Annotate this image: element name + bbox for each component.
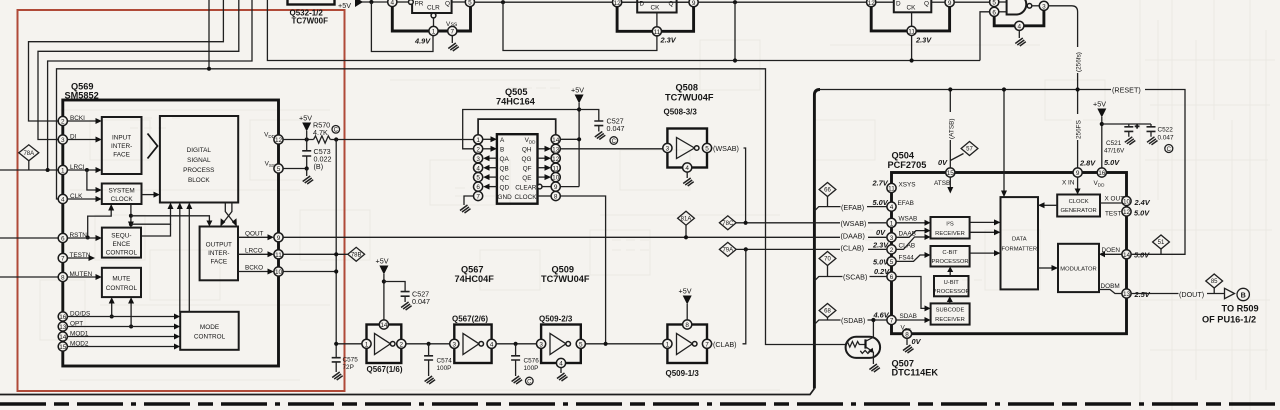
svg-text:SDAB: SDAB — [900, 313, 917, 320]
svg-text:MODE: MODE — [200, 324, 219, 331]
svg-text:12: 12 — [275, 137, 283, 144]
wire modulator to DOEN pin 14 — [1105, 253, 1122, 255]
wire LRCI from left edge to SM5852 pin 1 — [0, 169, 58, 171]
pin 9 of U3 — [945, 0, 954, 7]
wire U2 spine — [617, 7, 694, 32]
ground at C522 — [1147, 137, 1158, 145]
wire U2 box to pin9 — [677, 1, 689, 3]
pin 3 of U10 — [537, 339, 546, 348]
junction internal b — [129, 222, 133, 226]
svg-text:1: 1 — [666, 341, 670, 348]
svg-text:SIGNAL: SIGNAL — [187, 157, 211, 164]
svg-text:CONTROL: CONTROL — [106, 250, 138, 257]
svg-text:Q: Q — [669, 1, 674, 8]
junction CLK line — [207, 67, 211, 71]
pin 11 XSYS — [887, 183, 896, 192]
block DATA FORMATTER — [1001, 197, 1039, 289]
svg-text:1: 1 — [890, 220, 894, 227]
junction on OPT line — [129, 325, 133, 329]
inverter U10 Q509-2/3 box — [541, 325, 581, 364]
wire 256fs from NAND output down to X IN — [1049, 6, 1078, 168]
block INPUT INTERFACE — [102, 117, 142, 174]
sheet border dash-dot line — [0, 402, 1280, 406]
svg-text:(256fs): (256fs) — [1076, 52, 1083, 72]
wire modulator to DOBM pin 13 — [1099, 290, 1122, 294]
wire WSAB into I2S receiver — [896, 222, 925, 224]
svg-text:2: 2 — [400, 341, 404, 348]
svg-text:70: 70 — [824, 257, 831, 263]
svg-text:4: 4 — [559, 361, 563, 368]
capacitor C575 72P — [332, 358, 341, 372]
svg-text:2.3V: 2.3V — [915, 36, 932, 45]
flip-flop U3 box — [894, 0, 932, 12]
pin 4 CLK — [58, 194, 67, 203]
svg-text:13: 13 — [59, 324, 67, 331]
svg-text:PR: PR — [415, 1, 424, 8]
pin 6 RSTN — [58, 233, 67, 242]
pin 2 of U6 — [474, 144, 483, 153]
svg-text:Q509-1/3: Q509-1/3 — [666, 369, 700, 378]
svg-text:5: 5 — [476, 175, 480, 182]
wire U4 pin6 from 256fs-A riser — [980, 12, 990, 61]
svg-text:78C: 78C — [722, 221, 734, 227]
wire data formatter to modulator — [1038, 267, 1052, 269]
wire U4 pin5 stub — [999, 1, 1007, 3]
svg-text:INTER-: INTER- — [208, 250, 229, 257]
svg-text:8: 8 — [905, 331, 909, 338]
svg-text:8: 8 — [554, 194, 558, 201]
svg-text:U-BIT: U-BIT — [944, 280, 960, 286]
junction RESET drop — [1002, 87, 1006, 91]
wire +5V feed to FF1 pin 4 — [362, 1, 388, 3]
pin 11 of U6 — [551, 163, 560, 172]
svg-text:QC: QC — [500, 175, 510, 182]
wire DOUT output line — [1131, 293, 1224, 295]
svg-text:5: 5 — [890, 259, 894, 266]
svg-text:PROCESSOR: PROCESSOR — [933, 289, 970, 295]
pin 12 of U6 — [551, 154, 560, 163]
svg-text:SEQU-: SEQU- — [111, 233, 131, 240]
svg-text:DIGITAL: DIGITAL — [187, 147, 212, 154]
svg-text:5.0V: 5.0V — [1104, 158, 1120, 167]
svg-text:CLR: CLR — [427, 5, 440, 12]
label (EFAB) — [841, 202, 868, 211]
wire Q507 collector to SDAB line — [872, 320, 874, 337]
svg-text:GENERATOR: GENERATOR — [1061, 208, 1097, 214]
ground at C575 — [332, 372, 343, 380]
wire EFAB bend from bus — [814, 207, 887, 211]
svg-text:CLOCK: CLOCK — [1069, 199, 1089, 205]
label (DOUT) — [1179, 289, 1208, 299]
wire FS44 into C-BIT processor — [896, 255, 925, 261]
svg-text:D: D — [896, 1, 901, 8]
svg-text:2.3V: 2.3V — [660, 36, 677, 45]
test point C circle at C576 — [526, 377, 534, 385]
svg-text:+: + — [1135, 122, 1139, 131]
+5V supply at U8 — [376, 257, 389, 320]
connector diamond 85 — [1206, 274, 1223, 294]
pin 15 MOD2 — [58, 342, 67, 351]
svg-text:WSAB: WSAB — [899, 216, 918, 223]
wire QH pin13 to Q508-3/3 input — [560, 148, 663, 150]
pin 9 of U2 — [689, 0, 698, 7]
inverter U8 Q567(1/6) box — [367, 325, 402, 364]
svg-text:4: 4 — [476, 165, 480, 172]
junction on DO/DS line — [110, 315, 114, 319]
wire CLAB line to PCF2705 pin 2 — [736, 248, 886, 250]
+5V supply at R570 — [299, 114, 312, 140]
wire U6 pin1 stub with arrow — [483, 138, 491, 140]
svg-text:(EFAB): (EFAB) — [841, 203, 864, 212]
svg-text:6: 6 — [61, 236, 65, 243]
pin 2 of U8 — [397, 339, 406, 348]
junction clock loop on chain — [604, 342, 608, 346]
pin 1 of U11 — [663, 339, 672, 348]
label (SCAB) — [843, 272, 870, 281]
wire MUTEN into mute control — [67, 276, 96, 278]
wire ATSB from RESET line — [949, 90, 951, 168]
capacitor C576 100P — [511, 344, 520, 376]
svg-text:4.9V: 4.9V — [414, 37, 431, 46]
pin 14 DOEN — [1122, 250, 1131, 259]
svg-text:C: C — [527, 379, 532, 385]
svg-text:11: 11 — [888, 186, 895, 193]
wire system clock feedback from RSTN line — [88, 210, 112, 238]
svg-text:14: 14 — [380, 322, 388, 329]
svg-text:11: 11 — [275, 252, 282, 259]
wire U-BIT to C-BIT — [949, 272, 951, 277]
svg-text:+5V: +5V — [679, 287, 692, 296]
wire BCKI into block — [67, 120, 96, 122]
wire SDAB into subcode receiver — [896, 319, 925, 321]
pin 14 MOD1 — [58, 332, 67, 341]
sheet bottom rail wire — [0, 389, 814, 395]
svg-text:Q567(1/6): Q567(1/6) — [367, 365, 403, 374]
ground at C574 — [425, 376, 436, 384]
pin 8 of U11 — [683, 320, 692, 329]
wire WSAB from U7 output down to PCF2705 row — [712, 148, 746, 223]
svg-text:GND: GND — [498, 194, 513, 201]
wire riser from U2 Q down to 256fs-A line — [734, 2, 736, 60]
svg-text:2: 2 — [476, 146, 480, 153]
wire C-BIT to data formatter — [970, 252, 995, 254]
pin 1 of U1 — [429, 26, 438, 35]
svg-text:14: 14 — [552, 137, 560, 144]
capacitor C527 bypass at U8 — [384, 282, 410, 303]
svg-text:14: 14 — [1123, 252, 1131, 259]
svg-text:INPUT: INPUT — [112, 135, 131, 142]
pin 5 of U1 — [465, 0, 474, 7]
pin 12 of U3 — [867, 0, 876, 7]
svg-text:78A: 78A — [23, 151, 34, 157]
wire BCKI from top to SM5852 pin 2 — [29, 0, 224, 121]
svg-text:9: 9 — [948, 0, 952, 7]
svg-text:C575: C575 — [343, 357, 359, 364]
svg-text:16: 16 — [1098, 170, 1106, 177]
svg-text:14: 14 — [59, 334, 67, 341]
connector diamond 78A — [19, 145, 39, 170]
svg-text:Q: Q — [924, 1, 929, 8]
pin 10 BCKO — [274, 267, 283, 276]
svg-text:2.8V: 2.8V — [1079, 159, 1096, 168]
svg-text:PCF2705: PCF2705 — [888, 160, 927, 170]
wire U6 pin8 stub — [538, 195, 552, 197]
wire SCAB bend from bus — [814, 277, 887, 281]
wire U3 box to pin9 — [931, 1, 945, 3]
svg-text:DATA: DATA — [1012, 237, 1027, 243]
svg-text:B: B — [1241, 290, 1246, 299]
svg-text:MUTE: MUTE — [112, 276, 130, 283]
svg-text:XSYS: XSYS — [899, 182, 916, 189]
svg-text:(CLAB): (CLAB) — [713, 340, 737, 349]
svg-text:11: 11 — [908, 29, 915, 36]
block I2S RECEIVER — [931, 217, 970, 239]
wire U6 pin4 stub output arrow — [489, 167, 497, 169]
inverter triangle U9 — [463, 334, 484, 355]
svg-text:5: 5 — [468, 0, 472, 7]
svg-text:FS44: FS44 — [899, 255, 915, 262]
svg-text:4: 4 — [890, 204, 894, 211]
pin 1 of U8 — [362, 339, 371, 348]
svg-text:V ss: V ss — [446, 21, 457, 28]
wire mode control riser to DSP b — [188, 209, 190, 312]
svg-text:MODULATOR: MODULATOR — [1060, 267, 1097, 273]
wire U6 pin12 stub with arrow — [538, 157, 546, 159]
junction internal a — [129, 214, 133, 218]
pin 12 VDD — [274, 135, 283, 144]
svg-text:CK: CK — [907, 5, 917, 12]
pin 10 of U6 — [551, 173, 560, 182]
junction Q507 collector on SDAB — [871, 318, 875, 322]
svg-text:FACE: FACE — [113, 152, 130, 159]
svg-text:9: 9 — [277, 235, 281, 242]
pin 3 DI — [58, 135, 67, 144]
svg-text:2: 2 — [61, 119, 65, 126]
svg-text:C522: C522 — [1158, 127, 1174, 134]
svg-text:FORMATTER: FORMATTER — [1001, 247, 1037, 253]
junction +5V cap tap — [1100, 122, 1104, 126]
wire CLAB from U11 output up to 79A line — [712, 249, 746, 343]
svg-text:10: 10 — [552, 175, 560, 182]
pin 5 VSS — [274, 164, 283, 173]
chevron bus arrow into DSP — [148, 134, 158, 159]
ground at U10 pin4 — [557, 368, 568, 381]
svg-text:OUTPUT: OUTPUT — [206, 242, 232, 249]
svg-text:10: 10 — [275, 269, 283, 276]
buffer triangle DOUT — [1225, 288, 1235, 298]
wire U6 pin5 stub output arrow — [489, 176, 497, 178]
svg-text:C-BIT: C-BIT — [942, 250, 958, 256]
svg-text:15: 15 — [59, 344, 67, 351]
label (CLAB) at U11 — [713, 339, 743, 349]
svg-text:(WSAB): (WSAB) — [841, 219, 867, 228]
junction 256fs with RESET line — [1076, 87, 1080, 91]
svg-text:12: 12 — [868, 0, 876, 7]
svg-text:1: 1 — [476, 137, 480, 144]
wire internal to output interface — [131, 216, 210, 221]
wire U9 out to U10 in — [496, 343, 536, 345]
svg-text:C: C — [334, 128, 339, 134]
connector diamond 79A — [719, 242, 736, 256]
wire sequence control to DSP riser — [141, 224, 171, 236]
svg-text:4: 4 — [61, 197, 65, 204]
svg-text:RECEIVER: RECEIVER — [935, 317, 965, 323]
pin 7 of U11 — [702, 339, 711, 348]
wire U10 out to U11 in — [585, 343, 662, 345]
pin 7 of U1 — [448, 26, 457, 35]
pin 6 of U4 — [990, 7, 999, 16]
wire C node vertical to buffer chain — [335, 140, 337, 358]
wire RSTN from left edge — [0, 237, 58, 239]
wire +5V to C521 C522 — [1102, 123, 1151, 125]
svg-text:66: 66 — [824, 188, 831, 194]
pin 6 SCAB — [887, 272, 896, 281]
svg-text:74HC164: 74HC164 — [496, 97, 536, 107]
pin 4 of U9 — [487, 339, 496, 348]
ground at U7 pin4 — [683, 172, 694, 186]
svg-text:0V: 0V — [938, 158, 948, 167]
label (WSAB) at U7 — [713, 143, 744, 153]
label (WSAB) at U12 — [840, 218, 868, 227]
pin 8 of U6 — [551, 191, 560, 200]
pin 5 of U4 — [990, 0, 999, 7]
svg-text:Q504: Q504 — [892, 151, 915, 161]
junction VSS node — [305, 166, 309, 170]
svg-text:+5V: +5V — [299, 114, 312, 123]
junction R570 node — [305, 137, 309, 141]
svg-text:9: 9 — [1076, 170, 1080, 177]
pin 13 OPT — [58, 322, 67, 331]
svg-text:CLEAR: CLEAR — [515, 184, 537, 191]
svg-text:+5V: +5V — [1093, 100, 1106, 109]
svg-text:5: 5 — [579, 341, 583, 348]
svg-text:DTC114EK: DTC114EK — [892, 368, 939, 378]
svg-text:Q509-2/3: Q509-2/3 — [539, 315, 573, 324]
wire DI into block — [67, 139, 96, 141]
wire VDD pin12 to R570 — [283, 139, 313, 141]
junction +5V with pin14 — [577, 137, 581, 141]
svg-text:4: 4 — [391, 0, 395, 7]
svg-text:12: 12 — [1123, 209, 1131, 216]
connector diamond 78B — [348, 247, 365, 261]
svg-text:2.4V: 2.4V — [1134, 198, 1151, 207]
wire WSAB line to PCF2705 pin 1 — [736, 222, 886, 224]
wire ATSB arrow into IC interior — [949, 177, 951, 188]
wire U2 CK stub — [656, 13, 658, 27]
label (CLAB) at U12 — [840, 243, 868, 252]
svg-text:I²S: I²S — [946, 222, 954, 228]
svg-text:TC7W00F: TC7W00F — [292, 17, 329, 26]
wire U6 pin10 stub with arrow — [538, 176, 546, 178]
connector diamond 78C — [719, 216, 736, 230]
connector diamond 81A — [678, 211, 695, 237]
svg-text:2.5V: 2.5V — [1134, 290, 1151, 299]
svg-text:C: C — [1167, 147, 1172, 153]
svg-text:CLOCK: CLOCK — [514, 194, 537, 201]
pin 7 SDAB — [887, 315, 896, 324]
wire mode control riser to DSP a — [179, 209, 181, 312]
svg-text:68: 68 — [824, 309, 831, 315]
svg-text:3: 3 — [476, 156, 480, 163]
block U-BIT PROCESSOR — [934, 276, 969, 296]
wire U6 pin6 stub output arrow — [489, 186, 497, 188]
svg-text:(DAAB): (DAAB) — [841, 231, 865, 240]
wire RSTN into sequence control — [67, 237, 96, 239]
wire RESET drop into data formatter — [1003, 90, 1005, 192]
wire CLK riser and long line to Q507 base (net 2) — [57, 69, 846, 345]
junction LRCI internal — [85, 168, 89, 172]
ground at C576 — [512, 376, 522, 384]
svg-text:0.047: 0.047 — [607, 124, 625, 133]
IC U6 74HC164 box — [497, 134, 538, 204]
wire pin4 to box — [397, 1, 409, 3]
svg-text:3: 3 — [1042, 3, 1046, 10]
wire U6 pin7 GND stub — [464, 196, 474, 205]
component box Q532 (cut off at top) — [288, 0, 335, 5]
wire U8 out to U9 in — [406, 343, 450, 345]
ground at U6 pin7 — [460, 205, 471, 213]
svg-text:QD: QD — [500, 184, 510, 191]
pin 4 of U4 — [1015, 21, 1024, 30]
wire I2S to data formatter a — [970, 221, 995, 223]
svg-text:(DOUT): (DOUT) — [1179, 290, 1204, 299]
svg-text:QH: QH — [522, 147, 532, 154]
block SUBCODE RECEIVER — [931, 303, 970, 324]
svg-text:PROCESSOR: PROCESSOR — [931, 259, 968, 265]
capacitor C527 bypass at U6 — [579, 110, 603, 132]
svg-text:PROCESS: PROCESS — [183, 167, 214, 174]
junction U3 CK on 256fs-A — [910, 58, 914, 62]
node +5V/PR tie — [369, 0, 373, 4]
ground at C573 — [303, 169, 314, 185]
svg-text:79A: 79A — [722, 248, 733, 254]
svg-text:1: 1 — [365, 341, 369, 348]
svg-text:9: 9 — [554, 184, 558, 191]
svg-text:(B): (B) — [314, 162, 324, 171]
junction 81A on DAAB line — [684, 235, 688, 239]
svg-text:Q505: Q505 — [505, 87, 527, 97]
test point C circle — [332, 126, 340, 134]
IC U5 SM5852 body outline — [63, 100, 279, 366]
pin 1 of U6 — [474, 135, 483, 144]
svg-text:8: 8 — [685, 322, 689, 329]
svg-text:(ATSB): (ATSB) — [949, 119, 956, 139]
wire MUTEN from left edge — [0, 276, 58, 278]
ground at pin 8 — [903, 338, 914, 353]
wire system clock to DSP — [142, 194, 155, 196]
pin 4 of U7 — [683, 163, 692, 172]
wire CLR bubble to pin 1 — [433, 18, 435, 27]
svg-text:ATSB: ATSB — [934, 180, 950, 187]
svg-text:4: 4 — [1018, 23, 1022, 30]
svg-text:CK: CK — [651, 5, 661, 12]
svg-text:5.0V: 5.0V — [1134, 208, 1150, 217]
svg-text:Q508: Q508 — [676, 83, 698, 93]
junction U2 Q to 256fs-A riser — [733, 0, 737, 4]
svg-text:C576: C576 — [524, 358, 540, 365]
wire thick tie pin1 to pin14 — [478, 119, 556, 135]
svg-text:3: 3 — [453, 341, 457, 348]
ground at C527b — [401, 302, 412, 310]
svg-text:BLOCK: BLOCK — [188, 177, 210, 184]
pin 9 X IN — [1073, 168, 1082, 177]
pin 4 of U10 — [556, 358, 565, 367]
junction BCKO tap — [334, 269, 338, 273]
svg-text:TO R509: TO R509 — [1222, 304, 1259, 314]
wire U3 pin12 to box — [876, 1, 894, 3]
wire U6 pin9 stub — [542, 186, 551, 188]
wire tap down to U2 pin 11 (CK) — [503, 2, 657, 50]
